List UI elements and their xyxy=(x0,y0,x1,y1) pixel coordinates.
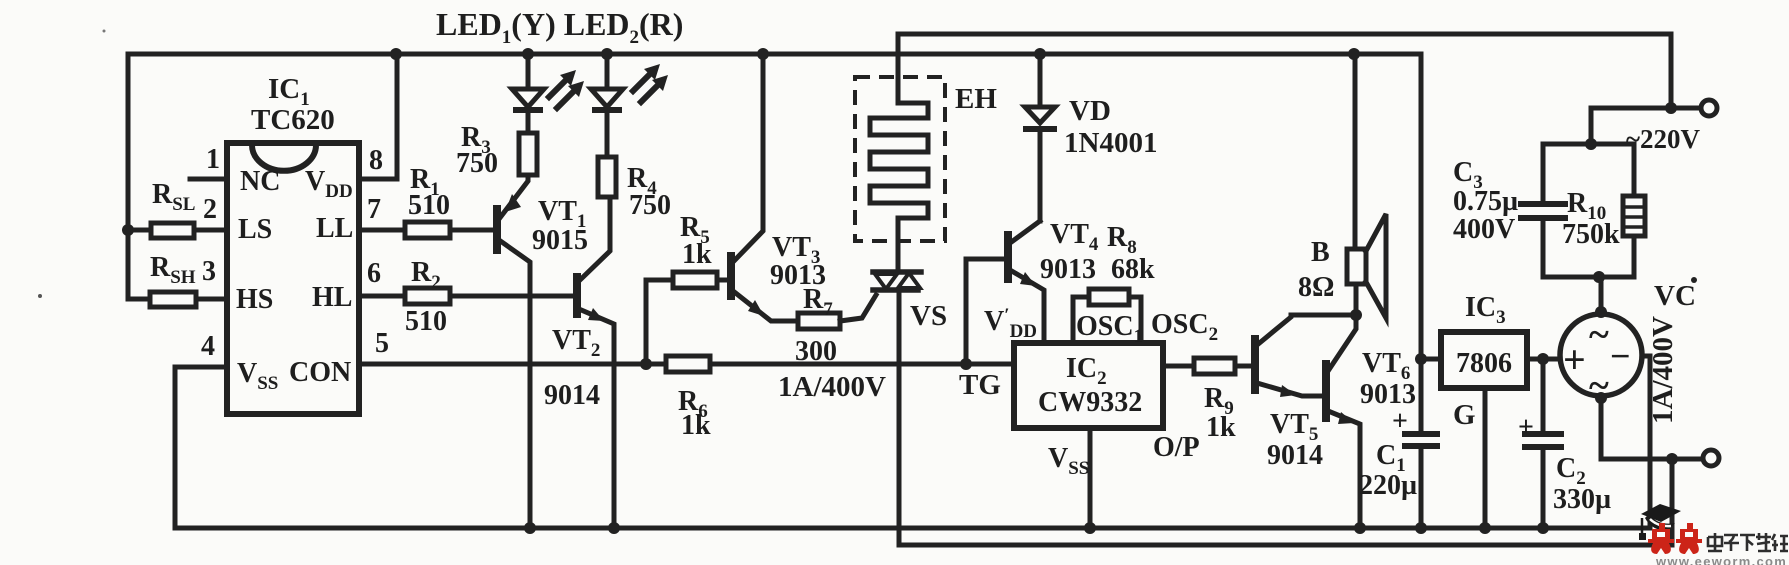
node VD top xyxy=(1034,48,1046,60)
terminal AC top xyxy=(1701,100,1717,116)
wire bridge bottom to AC terminal xyxy=(1601,398,1701,459)
svg-text:VSS: VSS xyxy=(1048,443,1089,479)
svg-text:IC3: IC3 xyxy=(1465,292,1506,328)
svg-text:1k: 1k xyxy=(1206,412,1236,443)
watermark red bug 2 xyxy=(1676,523,1702,554)
svg-text:VT2: VT2 xyxy=(552,325,600,361)
svg-text:9015: 9015 xyxy=(532,225,588,256)
wire bottom ground rail xyxy=(175,526,1650,531)
svg-text:+: + xyxy=(1518,412,1534,443)
svg-text:330µ: 330µ xyxy=(1553,484,1611,515)
resistor R1 xyxy=(405,222,450,238)
wire bottom AC rail xyxy=(899,543,1672,548)
svg-text:R2: R2 xyxy=(411,257,441,293)
svg-text:4: 4 xyxy=(201,331,215,362)
svg-text:IC2: IC2 xyxy=(1066,353,1107,389)
svg-text:VT4: VT4 xyxy=(1050,219,1099,255)
speaker B 8ohm xyxy=(1353,54,1358,249)
resistor R6 xyxy=(666,356,710,372)
svg-text:7806: 7806 xyxy=(1456,348,1512,379)
resistor R7 xyxy=(798,313,840,329)
node pin8 top xyxy=(390,48,402,60)
svg-text:CW9332: CW9332 xyxy=(1038,387,1142,418)
regulator IC3 7806 xyxy=(1441,332,1527,388)
LED LED1 xyxy=(526,54,531,89)
node RSL junction xyxy=(122,224,134,236)
svg-text:HS: HS xyxy=(236,284,273,315)
svg-text:G: G xyxy=(1453,399,1476,431)
watermark site name glyphs xyxy=(1708,533,1788,551)
wire top DC rail B xyxy=(128,54,1421,359)
svg-text:+: + xyxy=(1563,337,1586,382)
node LED2 top xyxy=(601,48,613,60)
node C2 branch xyxy=(1537,353,1549,365)
transistor VT5 9014 xyxy=(1251,339,1259,390)
svg-text:HL: HL xyxy=(312,282,352,313)
svg-text:3: 3 xyxy=(202,256,216,287)
svg-text:VDD: VDD xyxy=(305,166,353,202)
svg-text:~220V: ~220V xyxy=(1626,124,1701,154)
wire bridge minus to ground rail xyxy=(1643,356,1650,528)
op IC2 CW9332 xyxy=(1014,343,1163,428)
svg-text:1k: 1k xyxy=(681,410,711,441)
svg-text:220µ: 220µ xyxy=(1359,470,1417,501)
diode VD 1N4001 xyxy=(1038,54,1043,107)
IC2 VSS pin xyxy=(1088,428,1093,528)
svg-text:750k: 750k xyxy=(1562,219,1620,250)
svg-text:LED1(Y) LED2(R): LED1(Y) LED2(R) xyxy=(436,6,683,48)
svg-text:+: + xyxy=(1392,406,1408,437)
rectifier VC bridge xyxy=(1560,314,1642,396)
svg-text:510: 510 xyxy=(405,306,447,337)
IC1 notch xyxy=(252,145,316,171)
resistor R3 xyxy=(519,133,537,175)
resistor R9 xyxy=(1194,358,1235,374)
pin 8 wire xyxy=(359,54,397,179)
capacitor C1 220u xyxy=(1419,359,1424,434)
node R5 branch xyxy=(640,358,652,370)
LED2 light arrows xyxy=(633,73,651,91)
svg-text:VC: VC xyxy=(1654,280,1696,312)
svg-text:8: 8 xyxy=(369,145,383,176)
svg-text:LL: LL xyxy=(316,213,353,244)
svg-text:1N4001: 1N4001 xyxy=(1064,127,1157,159)
svg-text:300: 300 xyxy=(795,336,837,367)
pin 2 wire xyxy=(128,228,227,233)
LED LED2 xyxy=(605,54,610,89)
triac VS xyxy=(873,269,921,275)
svg-text:7: 7 xyxy=(367,194,381,225)
svg-text:LS: LS xyxy=(238,214,272,245)
svg-text:6: 6 xyxy=(367,258,381,289)
wire AC terminal to bottom rail xyxy=(1670,459,1675,545)
wire top AC rail A xyxy=(898,32,1671,37)
svg-text:OSC2: OSC2 xyxy=(1151,309,1218,345)
svg-text:750: 750 xyxy=(456,148,498,179)
heater element meander xyxy=(870,34,928,272)
terminal AC bottom xyxy=(1703,450,1719,466)
svg-text:750: 750 xyxy=(629,190,671,221)
svg-text:−: − xyxy=(1610,336,1631,376)
svg-text:9014: 9014 xyxy=(1267,440,1323,471)
node speaker top xyxy=(1348,48,1360,60)
svg-text:RSH: RSH xyxy=(150,252,196,288)
resistor R4 xyxy=(598,157,616,197)
pin 6 wire xyxy=(359,294,577,299)
node 7806 output xyxy=(1415,353,1427,365)
transistor VT2 9014 xyxy=(581,197,610,279)
svg-text:1A/400V: 1A/400V xyxy=(778,371,886,403)
resistor R10 750k xyxy=(1543,144,1634,196)
IC2 O/P pin xyxy=(1163,364,1194,369)
svg-text:B: B xyxy=(1311,237,1330,268)
svg-text:EH: EH xyxy=(955,83,997,115)
svg-text:TC620: TC620 xyxy=(251,104,335,136)
svg-text:510: 510 xyxy=(408,190,450,221)
svg-text:2: 2 xyxy=(203,194,217,225)
svg-text:RSL: RSL xyxy=(152,179,195,215)
7806 G pin xyxy=(1483,388,1488,528)
resistor R5 xyxy=(646,280,673,364)
node TG branch xyxy=(960,358,972,370)
heater EH dashed box xyxy=(855,77,945,241)
wire left vertical rail xyxy=(126,54,131,299)
svg-text:www.eeworm.com: www.eeworm.com xyxy=(1655,554,1787,565)
wire bridge top xyxy=(1599,277,1604,312)
svg-text:0.75µ: 0.75µ xyxy=(1453,186,1518,217)
svg-text:1k: 1k xyxy=(682,239,712,270)
svg-text:8Ω: 8Ω xyxy=(1298,272,1334,303)
node C3R10 top xyxy=(1585,138,1597,150)
svg-text:OSC1: OSC1 xyxy=(1076,311,1143,347)
transistor VT4 9013 xyxy=(966,259,1008,364)
svg-text:TG: TG xyxy=(959,369,1001,401)
resistor RSH xyxy=(150,292,196,307)
svg-text:VSS: VSS xyxy=(237,358,278,394)
svg-text:~: ~ xyxy=(1589,314,1609,356)
LED1 light arrows xyxy=(549,79,567,97)
svg-text:R8: R8 xyxy=(1107,222,1137,258)
node VT1 collector ground xyxy=(524,522,536,534)
wire 220V terminal xyxy=(1591,106,1701,111)
pin 3 wire xyxy=(128,297,227,302)
svg-text:NC: NC xyxy=(240,166,280,197)
capacitor C3 0.75u xyxy=(1541,144,1546,204)
resistor R2 xyxy=(405,288,450,304)
svg-text:VS: VS xyxy=(910,300,947,332)
svg-text:5: 5 xyxy=(375,328,389,359)
svg-text:R7: R7 xyxy=(803,284,833,320)
svg-text:CON: CON xyxy=(289,357,351,388)
wire 7806 input xyxy=(1527,357,1560,362)
node VT2 emitter ground xyxy=(608,522,620,534)
transistor VT6 9013 xyxy=(1322,364,1330,418)
IC1 TC620 body xyxy=(227,143,359,414)
wire R7 to triac gate xyxy=(840,295,876,321)
node LED1 top xyxy=(522,48,534,60)
speck marks xyxy=(38,294,42,298)
pin 1 stub NC xyxy=(190,177,227,182)
transistor VT1 9015 xyxy=(499,175,528,219)
watermark graduation cap xyxy=(1639,504,1681,540)
pin 7 wire xyxy=(359,228,497,233)
pin 5 wire CON to TG xyxy=(359,362,1014,367)
svg-text:V′DD: V′DD xyxy=(984,305,1037,342)
capacitor C2 330u xyxy=(1541,359,1546,434)
svg-text:1: 1 xyxy=(206,144,220,175)
svg-text:9014: 9014 xyxy=(544,380,600,411)
resistor R8 68k xyxy=(1073,297,1089,343)
svg-text:VD: VD xyxy=(1069,95,1111,127)
node C3R10 bottom xyxy=(1593,271,1605,283)
svg-text:O/P: O/P xyxy=(1153,432,1200,463)
pin 4 wire xyxy=(175,367,227,528)
node AC top junction xyxy=(1665,102,1677,114)
watermark red bug 1 xyxy=(1648,523,1674,554)
svg-text:68k: 68k xyxy=(1111,254,1155,285)
resistor RSL xyxy=(151,223,194,238)
svg-text:400V: 400V xyxy=(1453,214,1515,245)
transistor VT3 9013 xyxy=(733,54,763,262)
svg-text:9013: 9013 xyxy=(1040,254,1096,285)
node VT3 collector top xyxy=(757,48,769,60)
